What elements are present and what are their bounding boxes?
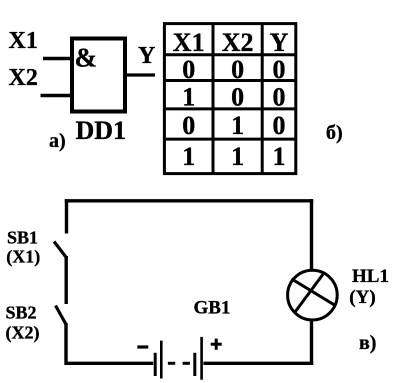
svg-text:&: & bbox=[75, 43, 98, 73]
svg-text:б): б) bbox=[326, 122, 343, 144]
svg-text:(Y): (Y) bbox=[349, 287, 375, 308]
svg-text:1: 1 bbox=[182, 142, 195, 171]
svg-text:SB1: SB1 bbox=[7, 228, 38, 248]
svg-text:X1: X1 bbox=[173, 28, 205, 57]
svg-text:X1: X1 bbox=[9, 28, 38, 54]
svg-text:(X1): (X1) bbox=[6, 247, 40, 268]
svg-text:0: 0 bbox=[231, 55, 244, 84]
svg-text:1: 1 bbox=[231, 142, 244, 171]
svg-text:SB2: SB2 bbox=[6, 303, 37, 323]
svg-text:0: 0 bbox=[273, 55, 286, 84]
svg-text:0: 0 bbox=[182, 55, 195, 84]
svg-text:X2: X2 bbox=[9, 65, 38, 91]
svg-text:1: 1 bbox=[182, 83, 195, 112]
svg-text:0: 0 bbox=[273, 111, 286, 140]
svg-text:в): в) bbox=[359, 332, 376, 354]
svg-text:Y: Y bbox=[270, 28, 289, 57]
svg-text:1: 1 bbox=[231, 111, 244, 140]
svg-text:Y: Y bbox=[138, 43, 155, 69]
svg-text:X2: X2 bbox=[222, 28, 254, 57]
svg-text:(X2): (X2) bbox=[6, 323, 40, 344]
svg-text:DD1: DD1 bbox=[76, 116, 127, 145]
svg-text:0: 0 bbox=[182, 111, 195, 140]
svg-text:GB1: GB1 bbox=[194, 298, 231, 319]
svg-text:HL1: HL1 bbox=[352, 266, 389, 287]
svg-text:1: 1 bbox=[273, 142, 286, 171]
svg-text:а): а) bbox=[49, 130, 66, 152]
svg-text:0: 0 bbox=[231, 83, 244, 112]
svg-text:0: 0 bbox=[273, 83, 286, 112]
